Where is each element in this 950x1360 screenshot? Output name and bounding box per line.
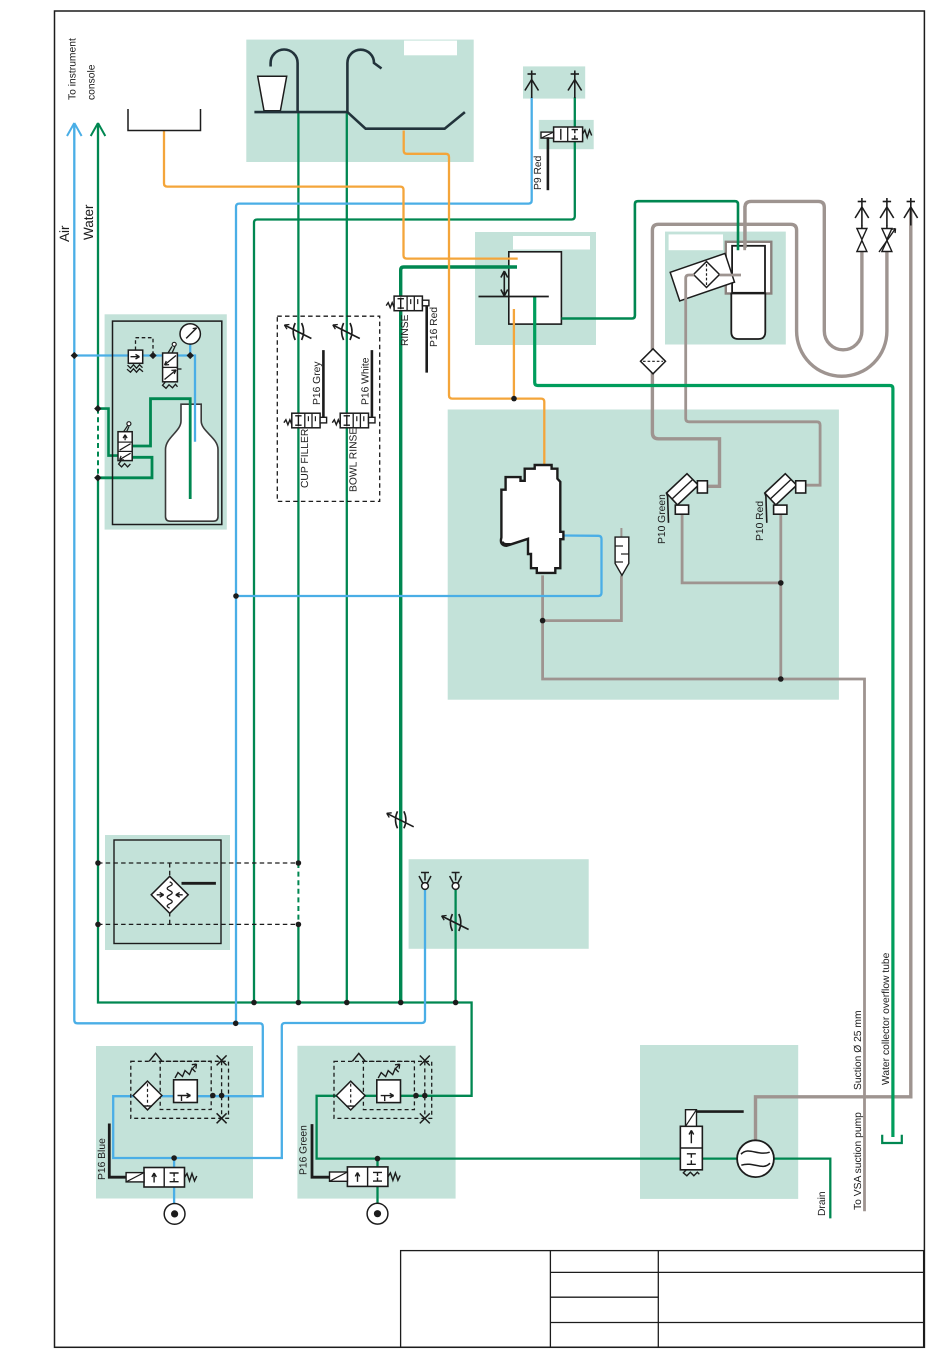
grey pipe: handpiece P10 Green return xyxy=(682,514,781,583)
green wire: tank outlet to separator xyxy=(561,201,738,318)
green wire: bottle valve feed from water line xyxy=(98,409,118,456)
svg-text:P9 Red: P9 Red xyxy=(533,155,544,190)
pilot wire P16 White xyxy=(371,350,374,417)
svg-text:To instrument: To instrument xyxy=(68,38,79,100)
exhaust arrow left xyxy=(525,71,539,99)
pilot wire P16 Grey xyxy=(322,350,325,417)
green wire: nozzle line xyxy=(454,889,456,1003)
bottle air pilot valve xyxy=(163,342,182,388)
water heater box frame xyxy=(114,840,221,944)
blue wire: gauge stem xyxy=(189,342,191,356)
svg-text:P16 Grey: P16 Grey xyxy=(312,361,323,405)
title block table xyxy=(401,1251,924,1348)
cuspidor body xyxy=(501,465,563,573)
svg-text:Suction Ø 25 mm: Suction Ø 25 mm xyxy=(853,1010,864,1090)
svg-text:RINSE: RINSE xyxy=(400,314,411,346)
exhaust arrow right xyxy=(568,71,582,99)
water level tank body xyxy=(509,252,562,324)
pilot wire P16 Red xyxy=(425,306,428,373)
filter regulator P16 Blue xyxy=(131,1053,229,1123)
teal panel: spray nozzle box xyxy=(409,859,589,949)
pilot wire P16 Blue xyxy=(109,1124,126,1178)
green wire: water main to manifold and P16 Green regulator to pump xyxy=(98,478,680,1159)
teal panel: P16 Green filter-regulator unit xyxy=(297,1046,455,1199)
svg-text:P10 Red: P10 Red xyxy=(755,501,766,541)
green wire: dashed bypass on water line xyxy=(97,409,99,478)
counter line xyxy=(254,111,347,114)
bowl profile xyxy=(347,112,465,129)
drain valve pilot line xyxy=(697,1110,744,1113)
cuspidor spout lip xyxy=(503,542,511,544)
separator lower bottle xyxy=(731,294,765,340)
bottle assembly frame xyxy=(113,321,222,524)
pilot wire P16 Green xyxy=(312,1124,330,1177)
supply arrow water xyxy=(91,123,106,140)
teal panel: water bottle assembly xyxy=(105,314,227,529)
teal panel: P9 valve box xyxy=(539,120,594,149)
green wire: cup filler dashed heater bypass xyxy=(297,863,299,924)
nozzle green xyxy=(450,873,462,890)
svg-text:Water: Water xyxy=(81,204,96,240)
separator tilted cartridge xyxy=(670,253,734,301)
separator filter diamond xyxy=(694,262,720,288)
blue wire: cuspidor air line xyxy=(236,536,602,597)
valve RINSE xyxy=(386,296,429,311)
green wire: bottle valve return to water line xyxy=(98,457,152,478)
separator inner vessel xyxy=(732,246,765,293)
grey pipe: far right exhaust line to pump xyxy=(756,210,911,1140)
output circle P16 Green xyxy=(367,1203,388,1224)
green bracket: water collector xyxy=(882,1135,902,1143)
green wire: bowl rinse line xyxy=(346,114,348,1003)
pressure gauge xyxy=(180,324,200,344)
green wire: P9 valve line to manifold xyxy=(254,97,575,1002)
junction dots xyxy=(233,1021,239,1027)
restrictor cup filler xyxy=(284,323,311,340)
green wire: cup filler line xyxy=(297,113,299,864)
svg-text:P10 Green: P10 Green xyxy=(657,494,668,544)
exhaust arrow far right xyxy=(904,198,918,226)
check valve on bottle air line xyxy=(127,338,153,373)
green wire: rinse line from tank xyxy=(401,267,517,1003)
green wire: water supply main xyxy=(97,123,99,409)
blue wire: nozzle line to P16 Blue valve xyxy=(282,889,425,1159)
blue wire: bottle pressurising line xyxy=(74,356,195,442)
svg-text:CUP FILLER: CUP FILLER xyxy=(300,429,311,488)
output circle P16 Blue xyxy=(164,1204,185,1225)
green wire: tank feed to water collector overflow xyxy=(535,297,893,1138)
handpiece P10 Red xyxy=(765,474,806,523)
teal panel: suction pump unit xyxy=(640,1045,798,1199)
valve P16 Blue xyxy=(126,1168,197,1188)
instrument console bracket xyxy=(128,109,201,131)
orange wire: instrument console line to tank xyxy=(164,131,518,259)
svg-text:P16 Red: P16 Red xyxy=(429,307,440,347)
svg-text:BOWL RINSE: BOWL RINSE xyxy=(349,428,360,492)
green wire: cup filler line lower xyxy=(297,924,299,1002)
teal panel: exhaust vent box xyxy=(523,66,585,98)
valve P16 Green xyxy=(330,1167,401,1187)
svg-text:Water collector overflow tube: Water collector overflow tube xyxy=(881,952,892,1085)
nozzle blue xyxy=(419,873,431,890)
grey pipe: separator frame to U-loop 2 and handpiece P10 Green xyxy=(652,224,887,486)
svg-text:To VSA suction pump: To VSA suction pump xyxy=(853,1112,864,1210)
bowtie regulating valve 2 xyxy=(882,229,892,252)
supply arrow air xyxy=(67,123,82,140)
grey stub: separator diamond to inner vessel xyxy=(720,274,742,277)
grey pipe: handpiece P10 Red return xyxy=(779,514,782,679)
suction pump xyxy=(737,1140,774,1177)
exhaust arrow U-loop 1 xyxy=(855,198,869,226)
orange wire: bowl drain to cuspidor inlet xyxy=(404,131,545,465)
valve BOWL RINSE xyxy=(332,413,375,428)
teal panel: water heater/filter box xyxy=(105,835,230,950)
saliva ejector xyxy=(615,537,629,575)
teal panel: main unit (cuspidor / handpieces) xyxy=(448,410,839,700)
pilot wire P9 Red xyxy=(547,137,550,190)
blue wire: P16 Blue valve output xyxy=(173,1158,175,1203)
exhaust arrow U-loop 2 xyxy=(880,198,894,226)
green wire: pump outlet to drain xyxy=(702,1159,830,1219)
teal panel: separator assembly xyxy=(665,232,786,345)
valve CUP FILLER xyxy=(284,413,327,428)
valve P9 xyxy=(541,127,592,142)
bowtie shutoff valve 1 xyxy=(857,229,867,252)
restrictor rinse line xyxy=(387,811,414,828)
tank water level line xyxy=(479,296,549,298)
svg-text:P16 Blue: P16 Blue xyxy=(97,1138,108,1180)
cup faucet xyxy=(271,49,298,112)
black stubs bowtie valves xyxy=(861,225,863,229)
green wire: bottle dip tube loop xyxy=(132,399,190,499)
blue wire: P9 exhaust branch xyxy=(236,97,532,1023)
grey stub: ejector top xyxy=(620,528,622,537)
dashed enclosure cup filler / bowl rinse xyxy=(277,316,379,501)
grey pipe: separator to U-loop 1 and shutoff valve xyxy=(745,201,862,349)
restrictor nozzle line xyxy=(442,914,469,931)
blue wire: air supply main to P16 Blue circuit xyxy=(74,123,283,1158)
restrictor bowl rinse xyxy=(333,323,360,340)
orange wire: tank overflow branch xyxy=(513,309,515,399)
grey stub: separator inlet xyxy=(743,206,746,250)
inline filter diamond on grey line xyxy=(641,349,666,374)
grey pipe: cuspidor drain and suction line xyxy=(543,575,865,1211)
grey pipe: saliva ejector to drain junction xyxy=(543,575,622,620)
teal panel: cup filler and bowl unit xyxy=(246,40,473,162)
svg-text:P16 White: P16 White xyxy=(361,357,372,405)
heater element xyxy=(151,876,216,913)
green wire: P16 Green valve output xyxy=(376,1159,378,1204)
grey pipe: separator drain to handpiece P10 Red xyxy=(686,275,820,485)
handpiece P10 Green xyxy=(667,474,708,523)
filter regulator P16 Green xyxy=(334,1053,432,1123)
svg-text:Drain: Drain xyxy=(817,1191,828,1216)
drain pilot valve xyxy=(680,1110,702,1176)
svg-text:console: console xyxy=(87,64,98,100)
svg-text:P16 Green: P16 Green xyxy=(299,1125,310,1175)
heater dashed links xyxy=(98,863,298,924)
cup xyxy=(258,76,287,111)
bottle water pilot valve xyxy=(118,422,132,467)
water bottle xyxy=(166,404,219,521)
bowl faucet xyxy=(347,50,381,114)
tank level range arrow xyxy=(501,271,508,296)
svg-text:Air: Air xyxy=(57,225,72,242)
teal panel: water level tank xyxy=(475,232,596,345)
teal panel: P16 Blue filter-regulator unit xyxy=(96,1046,253,1199)
separator outer housing xyxy=(726,242,772,294)
